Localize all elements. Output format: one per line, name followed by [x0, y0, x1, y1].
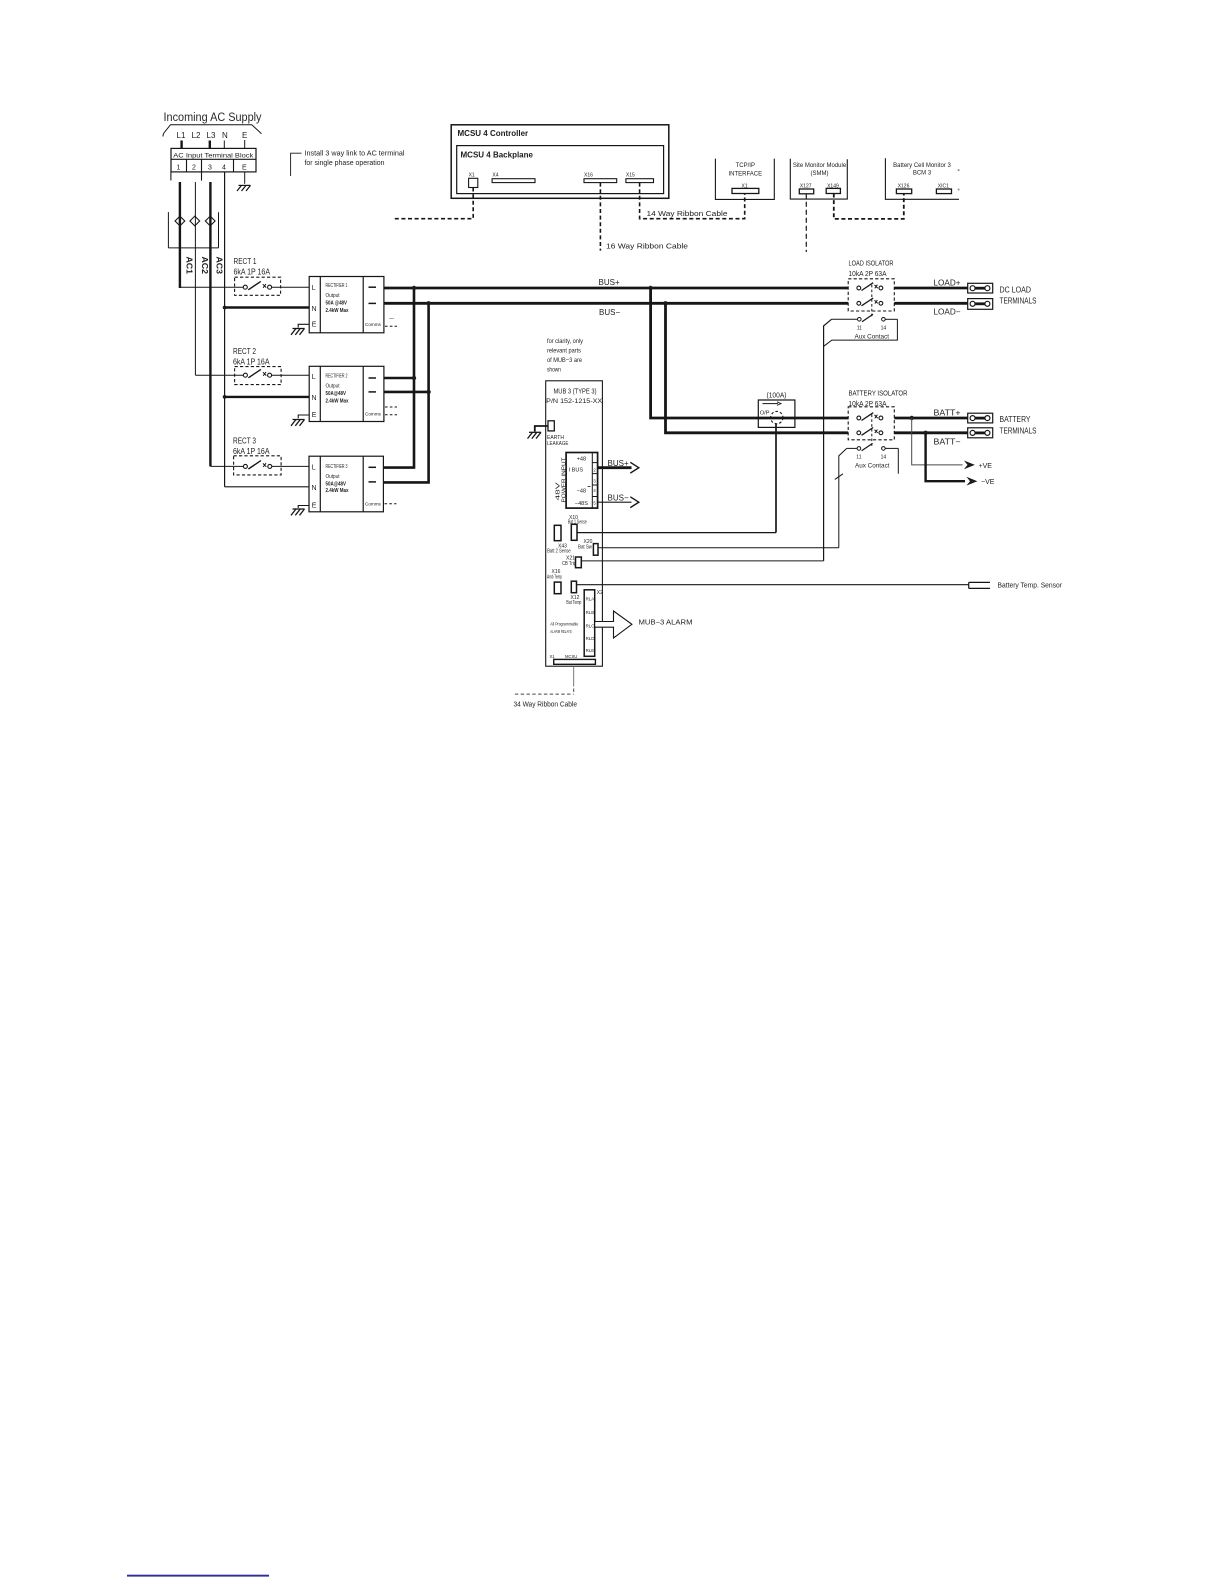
svg-text:Amb Temp: Amb Temp	[547, 575, 562, 581]
svg-text:1: 1	[177, 165, 181, 172]
svg-text:Comms: Comms	[365, 322, 382, 327]
breaker RECT 3 contacts	[243, 464, 271, 468]
svg-text:BUS−: BUS−	[599, 308, 620, 317]
svg-text:TERMINALS: TERMINALS	[1000, 297, 1037, 306]
rectifier U1 comms stub	[385, 325, 397, 327]
svg-text:Output: Output	[326, 474, 340, 480]
breaker RECT 1 contacts	[243, 285, 271, 289]
net label -VE	[981, 479, 995, 486]
ground earth leakage	[528, 432, 542, 438]
svg-text:BATTERY ISOLATOR: BATTERY ISOLATOR	[849, 391, 908, 398]
svg-text:4: 4	[593, 488, 596, 493]
LOAD ISOLATOR dashed enclosure	[848, 279, 894, 311]
connector X126 (BCM)	[898, 184, 910, 190]
svg-text:X2: X2	[597, 590, 603, 596]
svg-text:INTERFACE: INTERFACE	[728, 172, 762, 178]
rectifier U1 terminal labels	[312, 285, 317, 328]
svg-text:AC1: AC1	[184, 257, 193, 275]
wire fuse output to battery isolator	[795, 417, 848, 420]
MUB 3 board U4 box	[546, 381, 603, 666]
wire L1 stub into terminal block	[180, 141, 182, 149]
LOAD ISOLATOR aux terminal labels	[857, 326, 887, 332]
wire AC3 phase (L3) vertical	[209, 182, 211, 466]
svg-text:MCSU: MCSU	[565, 654, 577, 659]
node L1 label	[177, 131, 186, 140]
fuse F1 box	[758, 400, 795, 427]
fuse link diamond on L1	[175, 216, 185, 226]
LOAD ISOLATOR aux contact	[832, 318, 858, 320]
connector X21 CB Trip	[576, 557, 582, 568]
connector X20 Bat Sw	[593, 544, 598, 556]
breaker RECT 3 dashed enclosure	[234, 456, 282, 475]
breaker RECT 2 label	[233, 347, 270, 367]
footer rule	[127, 1575, 269, 1577]
svg-text:11: 11	[857, 326, 862, 332]
svg-text:RECTIFIER 2: RECTIFIER 2	[326, 373, 348, 379]
Battery Temp Sensor label	[998, 583, 1063, 590]
MUB-3 ALARM label	[639, 620, 693, 627]
wire BUS- feeder vertical to rectifier 3	[383, 303, 428, 482]
svg-text:L2: L2	[192, 131, 201, 140]
rectifier U1 output bars	[369, 286, 377, 288]
wire N to rectifier 1	[225, 306, 310, 308]
rectifier U1 text	[326, 283, 350, 314]
svg-text:RLC: RLC	[586, 624, 595, 629]
BATTERY TERMINALS label	[1000, 415, 1037, 436]
wire fuse F1 through	[758, 417, 795, 420]
svg-text:N: N	[312, 306, 317, 313]
LOAD ISOLATOR mechanical link	[871, 285, 873, 318]
battery terminal +	[968, 413, 993, 423]
svg-text:RLE: RLE	[586, 648, 595, 653]
connector X16 (MCSU)	[584, 173, 593, 179]
svg-text:6kA 1P 16A: 6kA 1P 16A	[234, 268, 271, 277]
MCSU 4 Backplane box	[457, 146, 664, 194]
continuation dots at BCM edge	[958, 169, 960, 190]
svg-text:Site Monitor Module: Site Monitor Module	[793, 163, 847, 169]
junction BUS- battery drop	[663, 301, 667, 305]
connector earth leakage	[548, 421, 554, 431]
svg-text:RECT 2: RECT 2	[233, 347, 256, 356]
MUB-3 alarm block arrow	[595, 611, 632, 638]
net label AC3	[215, 257, 224, 275]
connector X2 alarm relays	[584, 590, 595, 657]
wire rectifier 2 + output to feeder	[384, 377, 414, 380]
rectifier U1 box	[309, 277, 384, 333]
LOAD ISOLATOR pole 2	[857, 301, 883, 305]
net label LOAD+	[934, 279, 961, 288]
rectifier U2 Comms label	[365, 412, 382, 417]
svg-text:BUS−: BUS−	[608, 493, 629, 502]
Battery Cell Monitor module outline	[885, 158, 959, 199]
wire aux contact 11 to MUB3 CB Trip	[824, 319, 832, 561]
svg-text:Install 3 way link to AC termi: Install 3 way link to AC terminal	[305, 151, 405, 158]
TCP/IP INTERFACE module outline	[715, 159, 774, 200]
svg-text:34 Way Ribbon Cable: 34 Way Ribbon Cable	[514, 702, 578, 709]
rectifier U2 comms stubs	[385, 406, 397, 408]
ground rectifier 2	[291, 420, 305, 426]
wire crossing slash on aux wire	[835, 474, 843, 480]
junction BATT- sense	[923, 431, 927, 435]
comms dashed bus from MCSU X1	[394, 188, 473, 219]
svg-text:50A@48V: 50A@48V	[326, 391, 347, 397]
LOAD ISOLATOR aux enclosure	[824, 319, 898, 346]
svg-text:O/P: O/P	[760, 411, 770, 417]
svg-text:2.4kW Max: 2.4kW Max	[326, 398, 350, 404]
net label AC1	[184, 257, 193, 275]
wire rectifier 1 E to ground	[298, 324, 309, 327]
power input pin labels	[569, 456, 589, 507]
breaker RECT 2 dashed enclosure	[235, 367, 282, 385]
note: for clarity	[547, 338, 584, 374]
svg-text:3: 3	[208, 165, 212, 172]
svg-text:TCP/IP: TCP/IP	[736, 163, 755, 169]
svg-text:+VE: +VE	[979, 463, 993, 470]
svg-text:RECT 3: RECT 3	[233, 437, 256, 446]
rectifier U3 comms stub	[385, 503, 397, 505]
svg-text:E: E	[312, 412, 317, 419]
svg-text:ALARM RELAYS: ALARM RELAYS	[550, 629, 572, 634]
svg-text:E: E	[312, 321, 317, 328]
fuse F1 dashed circle element	[771, 411, 783, 423]
svg-text:X4: X4	[492, 173, 498, 179]
fuse F1 O/P label	[760, 411, 770, 417]
connector X39 power input block	[566, 453, 598, 509]
wire AC2 to rectifier 2 L	[195, 374, 243, 376]
connector X15 (MCSU)	[626, 173, 635, 179]
wire LOAD+	[894, 287, 970, 290]
net label AC2	[200, 257, 209, 275]
svg-text:2: 2	[593, 467, 596, 472]
svg-text:Output: Output	[326, 293, 340, 299]
node L2 label	[192, 131, 201, 140]
connector X149 (SMM)	[827, 183, 839, 189]
junction BATT+ sense	[910, 416, 914, 420]
connector X12 Bat Temp	[571, 581, 576, 593]
svg-text:Comms: Comms	[365, 412, 382, 417]
rectifier U3 text	[326, 464, 350, 494]
net label BATT-	[934, 438, 961, 447]
svg-text:Bat 1 Sense: Bat 1 Sense	[568, 519, 587, 525]
svg-text:MUB 3 (TYPE 3): MUB 3 (TYPE 3)	[554, 389, 597, 396]
svg-text:AC Input Terminal Block: AC Input Terminal Block	[173, 152, 254, 159]
svg-text:2.4kW Max: 2.4kW Max	[326, 488, 350, 494]
svg-text:4: 4	[222, 165, 226, 172]
connector X1 (TCP/IP)	[742, 183, 748, 189]
connector X1 MCSU ribbon	[554, 659, 596, 664]
svg-text:for clarity, only: for clarity, only	[547, 338, 584, 345]
connector X1 (MCSU)	[469, 173, 475, 179]
svg-text:AC2: AC2	[200, 257, 209, 275]
fuse F1 (100A) label	[767, 393, 787, 400]
connector X43 Batt 2 Sense	[554, 525, 561, 540]
connector X16 Amb Temp	[547, 569, 562, 581]
svg-text:N: N	[222, 131, 228, 140]
svg-text:E: E	[242, 131, 247, 140]
connector X4 (MCSU)	[492, 173, 498, 179]
svg-text:relevant parts: relevant parts	[547, 348, 582, 355]
power input rotated label	[556, 458, 568, 503]
svg-text:for single phase operation: for single phase operation	[305, 160, 385, 167]
DC LOAD TERMINALS label	[1000, 286, 1037, 306]
svg-text:I BUS: I BUS	[569, 467, 584, 473]
svg-text:L: L	[312, 464, 316, 471]
svg-text:2: 2	[192, 165, 196, 172]
svg-text:Aux Contact: Aux Contact	[855, 464, 890, 470]
svg-text:14 Way Ribbon Cable: 14 Way Ribbon Cable	[647, 211, 728, 218]
rectifier U2 output bars	[369, 377, 377, 379]
wire N to rectifier 2	[225, 396, 310, 398]
fuse link diamond on L2	[190, 216, 200, 226]
wire AC3 to rectifier 3 L	[210, 465, 243, 467]
svg-text:16 Way Ribbon Cable: 16 Way Ribbon Cable	[606, 244, 688, 251]
wire E to earth	[244, 172, 246, 184]
wire AC1 phase (L1) vertical	[179, 182, 181, 288]
svg-text:5: 5	[593, 501, 596, 506]
svg-text:X15: X15	[626, 173, 635, 179]
wire X10 battery sense to fuse tap	[577, 532, 776, 534]
svg-text:RECTIFIER 3: RECTIFIER 3	[326, 464, 348, 470]
wire rectifier 2 E to ground	[298, 415, 309, 418]
svg-text:−48: −48	[577, 488, 587, 494]
power input pin numbers	[593, 467, 596, 505]
svg-text:(SMM): (SMM)	[811, 171, 829, 177]
wire N vertical	[224, 172, 226, 487]
BATTERY ISOLATOR pole 1	[857, 416, 883, 420]
rectifier U3 output bars	[369, 466, 377, 468]
wire +VE tap with arrow	[912, 418, 963, 465]
wire battery feed - drop	[666, 303, 849, 433]
svg-text:10kA 2P 63A: 10kA 2P 63A	[849, 271, 887, 278]
svg-text:Comms: Comms	[365, 502, 382, 507]
svg-text:DC LOAD: DC LOAD	[1000, 286, 1032, 295]
wire AC1 to rectifier 1 L	[180, 286, 243, 288]
LOAD ISOLATOR pole 1	[857, 286, 883, 290]
svg-text:LOAD+: LOAD+	[934, 279, 961, 288]
ground symbol below terminal block	[237, 185, 251, 191]
svg-text:POWER INPUT: POWER INPUT	[562, 458, 568, 503]
breaker RECT 1 dashed enclosure	[235, 277, 281, 295]
breaker RECT 3 label	[233, 437, 270, 457]
wire battery feed + drop to fuse	[651, 288, 759, 418]
BATTERY ISOLATOR aux stub from 14	[897, 448, 899, 473]
wire X12 to battery temp sensor	[577, 584, 969, 586]
svg-text:LOAD ISOLATOR: LOAD ISOLATOR	[849, 261, 894, 268]
battery terminal -	[968, 428, 993, 438]
svg-text:RECT 1: RECT 1	[234, 257, 257, 266]
wire BUS+ output of MUB3	[598, 466, 632, 469]
node L3 label	[207, 131, 216, 140]
DC load terminal +	[968, 283, 993, 293]
LOAD ISOLATOR aux contact label	[855, 335, 890, 341]
svg-text:+48: +48	[577, 456, 587, 462]
wire N to rectifier 3	[225, 486, 309, 488]
svg-text:Bat Sw: Bat Sw	[578, 545, 592, 551]
fuse F1 direction arrow	[763, 403, 779, 405]
wire BATT-	[894, 431, 970, 434]
svg-text:N: N	[312, 485, 317, 492]
net label BUS-	[599, 308, 620, 317]
BATTERY ISOLATOR aux contact	[847, 447, 857, 449]
net label LOAD-	[934, 308, 961, 317]
AC Input Terminal Block box	[171, 148, 256, 180]
svg-text:All Programmable: All Programmable	[550, 621, 578, 626]
svg-text:Battery Temp. Sensor: Battery Temp. Sensor	[998, 583, 1063, 590]
svg-text:P/N 152-1215-XX: P/N 152-1215-XX	[546, 398, 602, 405]
wire BUS+ main	[384, 287, 848, 290]
wire fuse sense tap down	[775, 424, 777, 533]
rectifier U3 box	[309, 456, 383, 512]
wire BUS- main	[384, 302, 848, 305]
ribbon cable 34 way from MUB3	[573, 666, 575, 686]
LOAD ISOLATOR label	[849, 261, 894, 279]
net label BUS+	[599, 278, 620, 287]
svg-text:RLB: RLB	[586, 610, 595, 615]
svg-text:RLD: RLD	[586, 636, 595, 641]
svg-text:−VE: −VE	[981, 479, 995, 486]
svg-text:MUB−3 ALARM: MUB−3 ALARM	[639, 620, 693, 627]
programmable alarm relays label	[550, 621, 578, 634]
net label +VE	[979, 463, 993, 470]
svg-text:−48S: −48S	[575, 501, 588, 507]
BATTERY ISOLATOR dashed enclosure	[848, 407, 894, 440]
rectifier U2 text	[326, 373, 350, 404]
svg-text:BATTERY: BATTERY	[1000, 415, 1032, 424]
rectifier U2 terminal labels	[312, 374, 317, 419]
note leader line	[291, 153, 302, 176]
BATTERY ISOLATOR mechanical link	[871, 415, 873, 447]
svg-text:Bat Temp: Bat Temp	[566, 600, 581, 606]
svg-text:Batt 2 Sense: Batt 2 Sense	[547, 549, 571, 555]
junction N to rectifier 2	[223, 395, 227, 399]
svg-text:50A@48V: 50A@48V	[326, 481, 347, 487]
svg-text:6kA 1P 16A: 6kA 1P 16A	[233, 358, 270, 367]
junction BUS+ battery drop	[648, 286, 652, 290]
battery temp sensor symbol	[969, 582, 990, 588]
ribbon cable 14 way from X15 to TCP/IP X1	[640, 183, 745, 219]
junction BUS+ at feeder	[412, 286, 416, 290]
wire BUS+ feeder vertical to rectifier 3	[383, 288, 414, 468]
svg-text:3: 3	[593, 478, 596, 483]
ribbon cable 16 way from X16	[599, 183, 601, 251]
BATTERY ISOLATOR aux terminal labels	[856, 455, 886, 461]
svg-text:RECTIFIER 1: RECTIFIER 1	[326, 283, 348, 289]
svg-text:LEAKAGE: LEAKAGE	[547, 441, 569, 447]
junction N to rectifier 1	[223, 306, 227, 310]
svg-text:BATT+: BATT+	[934, 409, 961, 418]
junction BUS- feeder at rectifier 2	[426, 390, 430, 394]
title: Incoming AC Supply	[164, 112, 262, 124]
wire AC2 phase (L2) vertical	[194, 182, 196, 375]
svg-text:50A @48V: 50A @48V	[326, 301, 348, 307]
wire E stub into terminal block	[244, 140, 246, 149]
svg-text:TERMINALS: TERMINALS	[1000, 427, 1037, 436]
svg-text:2.4kW Max: 2.4kW Max	[326, 308, 350, 314]
connector X127 (SMM)	[800, 183, 812, 189]
junction BUS+ feeder at rectifier 2	[412, 376, 416, 380]
wire earth leakage to ground	[535, 426, 548, 432]
BATTERY ISOLATOR aux contact label	[855, 464, 890, 470]
wire L3 stub into terminal block	[209, 141, 211, 149]
rectifier U1 Comms label	[365, 322, 382, 327]
svg-text:L1: L1	[177, 131, 186, 140]
svg-text:E: E	[242, 165, 247, 172]
svg-text:(100A): (100A)	[767, 393, 787, 400]
BATTERY ISOLATOR label	[849, 391, 908, 409]
wire aux contact 11 to MUB3 Bat Sw	[839, 448, 847, 547]
DC load terminal -	[968, 299, 993, 310]
svg-text:RLA: RLA	[586, 597, 595, 602]
wire -VE tap with arrow	[926, 433, 965, 481]
wire BUS- output of MUB3	[598, 501, 632, 503]
svg-text:L3: L3	[207, 131, 216, 140]
svg-text:BATT−: BATT−	[934, 438, 961, 447]
breaker RECT 1 label	[234, 257, 271, 277]
svg-text:11: 11	[856, 455, 861, 461]
svg-text:BUS+: BUS+	[599, 278, 620, 287]
ground rectifier 1	[291, 329, 305, 335]
ground rectifier 3	[291, 509, 305, 515]
junction BUS- at feeder	[426, 301, 430, 305]
connector X10 Batt 1 Sense	[571, 524, 577, 540]
svg-text:X1: X1	[550, 654, 556, 659]
breaker RECT 2 contacts	[243, 373, 271, 377]
brace under title	[163, 125, 262, 137]
svg-text:14: 14	[881, 326, 887, 332]
rectifier U2 box	[309, 366, 384, 421]
EARTH LEAKAGE label	[547, 435, 569, 447]
wire N stub into terminal block	[223, 141, 225, 149]
svg-text:AC3: AC3	[215, 257, 224, 275]
svg-text:shown: shown	[547, 367, 561, 374]
svg-text:LOAD−: LOAD−	[934, 308, 961, 317]
node N label	[222, 131, 228, 140]
svg-text:14: 14	[881, 455, 887, 461]
svg-text:X16: X16	[584, 173, 593, 179]
svg-text:6kA 1P 16A: 6kA 1P 16A	[233, 447, 270, 456]
wire rectifier 2 - output to feeder	[384, 391, 429, 394]
wire rectifier 3 E to ground	[298, 506, 309, 509]
BATTERY ISOLATOR pole 2	[857, 431, 883, 435]
svg-text:Incoming AC Supply: Incoming AC Supply	[164, 112, 262, 124]
svg-text:Output: Output	[326, 384, 340, 390]
svg-text:X1: X1	[469, 173, 475, 179]
cable from X127	[805, 194, 807, 252]
svg-text:L: L	[312, 374, 316, 381]
rectifier U3 terminal labels	[312, 464, 317, 509]
fuse link bracket	[168, 212, 218, 248]
note: install 3 way link	[305, 151, 405, 168]
svg-text:Battery Cell Monitor 3: Battery Cell Monitor 3	[893, 163, 951, 169]
net label BATT+	[934, 409, 961, 418]
MCSU 4 Controller box	[451, 125, 669, 199]
svg-text:MCSU 4 Backplane: MCSU 4 Backplane	[461, 151, 534, 160]
connector XIC1 (BCM)	[938, 184, 949, 190]
svg-text:BUS+: BUS+	[608, 459, 629, 468]
svg-text:of MUB−3 are: of MUB−3 are	[547, 357, 582, 364]
svg-text:BCM 3: BCM 3	[913, 171, 932, 177]
svg-text:MCSU 4 Controller: MCSU 4 Controller	[458, 129, 529, 138]
Site Monitor Module outline	[790, 159, 847, 199]
cable from X149 to BCM X126	[834, 194, 904, 219]
svg-text:N: N	[312, 395, 317, 402]
fuse link diamond on L3	[205, 216, 215, 226]
svg-text:CB Trip: CB Trip	[562, 561, 576, 567]
wire LOAD-	[894, 302, 970, 305]
node E label	[242, 131, 247, 140]
rectifier U3 Comms label	[365, 502, 382, 507]
svg-text:L: L	[312, 285, 316, 292]
